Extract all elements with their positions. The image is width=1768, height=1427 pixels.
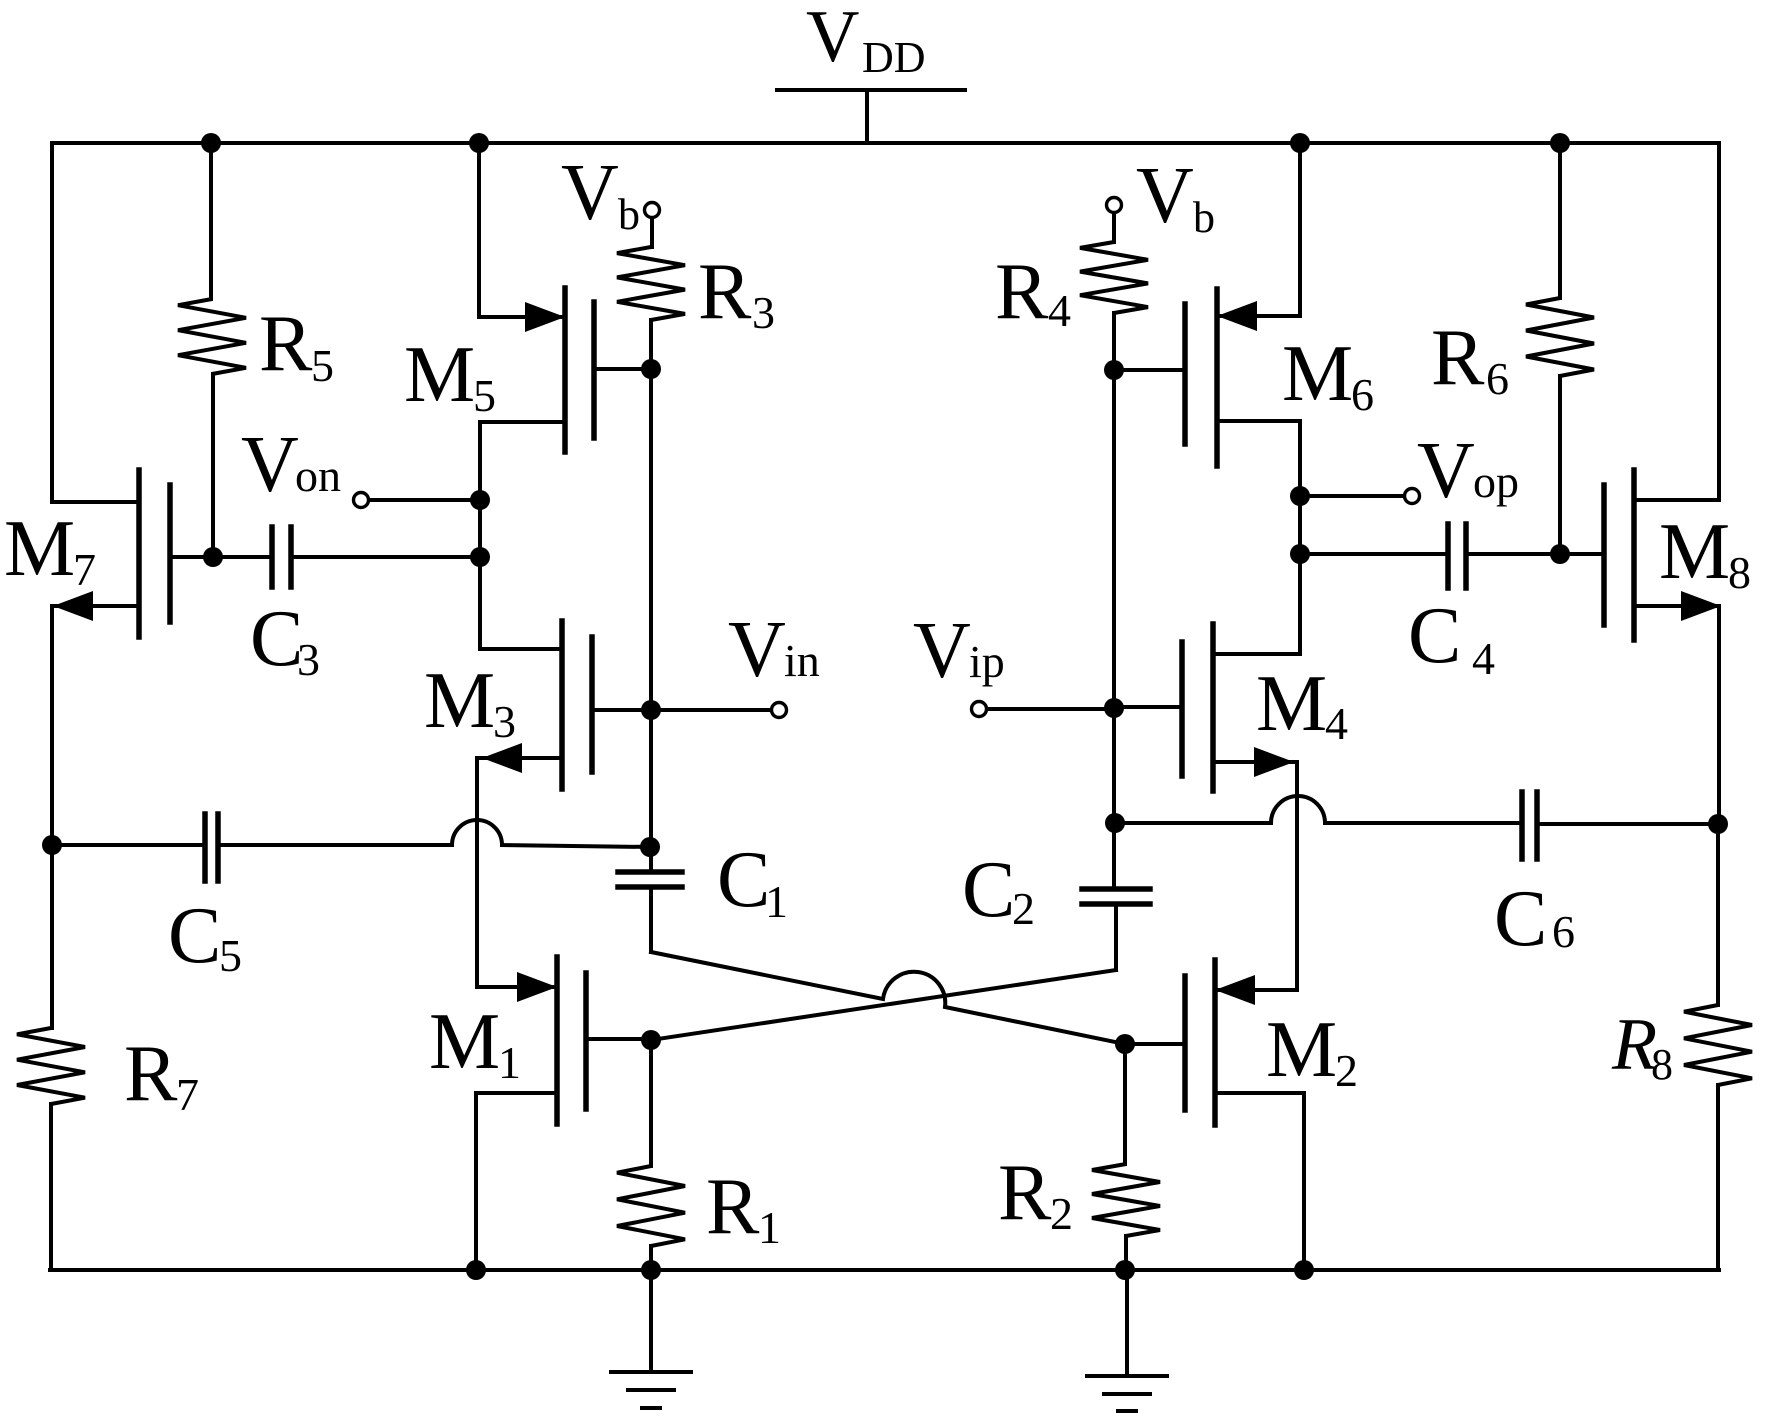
wire: cross-coupling C1 to M2 gate (with hop) — [651, 952, 1125, 1044]
svg-text:M: M — [1266, 1006, 1337, 1094]
node Von — [241, 421, 478, 509]
svg-text:M: M — [1282, 330, 1353, 418]
capacitor C4 — [1300, 524, 1604, 684]
svg-text:V: V — [913, 607, 971, 695]
svg-text:8: 8 — [1651, 1040, 1673, 1089]
wire: R3 column down to C1 — [649, 369, 653, 872]
transistor M4 — [1115, 624, 1348, 990]
svg-text:7: 7 — [176, 1069, 199, 1120]
svg-text:1: 1 — [498, 1037, 521, 1088]
svg-text:5: 5 — [473, 370, 496, 421]
transistor M7 — [4, 470, 215, 845]
transistor M1 — [429, 957, 650, 1270]
power symbol VDD — [777, 0, 965, 143]
svg-text:b: b — [618, 190, 640, 239]
transistor M5 — [404, 288, 651, 649]
svg-text:R: R — [998, 1149, 1052, 1237]
capacitor C6 — [1115, 792, 1718, 963]
svg-text:4: 4 — [1472, 633, 1495, 684]
svg-text:6: 6 — [1486, 353, 1509, 404]
wire: left edge from rail to M7 source — [52, 143, 139, 502]
svg-text:C: C — [717, 836, 770, 924]
svg-text:R: R — [698, 248, 752, 336]
transistor M8 — [1604, 470, 1751, 824]
resistor R7 — [17, 845, 199, 1268]
resistor R8 — [1611, 824, 1752, 1270]
svg-text:on: on — [295, 450, 341, 501]
svg-text:2: 2 — [1050, 1188, 1073, 1239]
svg-text:V: V — [241, 421, 299, 509]
svg-text:R: R — [1431, 314, 1485, 402]
wire: VDD top rail — [52, 141, 1719, 145]
ground (right, under R2) — [1087, 1270, 1167, 1411]
wire: R4 column down to C2 — [1112, 370, 1116, 889]
svg-text:b: b — [1193, 193, 1215, 242]
svg-text:C: C — [250, 595, 303, 683]
wire: left edge bottom corner — [49, 1104, 53, 1270]
wire: rail to M5 source — [477, 143, 481, 317]
transistor M6 — [1114, 289, 1374, 654]
resistor R2 — [998, 1044, 1160, 1270]
transistor M3 — [424, 621, 651, 987]
node Vip — [913, 607, 1114, 717]
wire: right edge from rail to M8 source — [1634, 143, 1719, 500]
node Vb (right) and resistor R4 — [995, 152, 1215, 370]
svg-text:1: 1 — [765, 876, 788, 927]
svg-text:7: 7 — [73, 544, 96, 595]
svg-text:R: R — [124, 1030, 178, 1118]
wire: rail to M6 source — [1298, 143, 1302, 316]
resistor R1 — [617, 1040, 781, 1270]
svg-text:M: M — [1256, 660, 1327, 748]
svg-text:V: V — [561, 149, 619, 237]
svg-text:M: M — [429, 998, 500, 1086]
svg-text:M: M — [1659, 508, 1730, 596]
svg-text:M: M — [4, 505, 75, 593]
svg-text:2: 2 — [1335, 1045, 1358, 1096]
svg-text:8: 8 — [1728, 547, 1751, 598]
capacitor C2 — [962, 846, 1150, 970]
svg-text:3: 3 — [297, 634, 320, 685]
svg-text:1: 1 — [758, 1202, 781, 1253]
svg-text:5: 5 — [219, 930, 242, 981]
svg-text:in: in — [784, 635, 820, 686]
svg-text:C: C — [168, 892, 221, 980]
svg-text:6: 6 — [1552, 906, 1575, 957]
svg-text:DD: DD — [862, 33, 926, 82]
svg-text:4: 4 — [1048, 285, 1071, 336]
svg-text:V: V — [806, 0, 859, 78]
svg-text:R: R — [706, 1163, 760, 1251]
svg-text:C: C — [1408, 592, 1461, 680]
svg-text:3: 3 — [752, 287, 775, 338]
svg-text:2: 2 — [1012, 883, 1035, 934]
svg-text:M: M — [404, 331, 475, 419]
capacitor C5 — [52, 814, 649, 981]
svg-text:C: C — [1494, 875, 1547, 963]
svg-text:4: 4 — [1325, 698, 1348, 749]
ground (left, under R1) — [611, 1270, 691, 1408]
node Vop — [1300, 427, 1519, 515]
svg-text:V: V — [728, 606, 786, 694]
svg-text:M: M — [424, 657, 495, 745]
svg-text:op: op — [1473, 456, 1519, 507]
resistor R6 — [1431, 143, 1594, 554]
svg-text:6: 6 — [1351, 369, 1374, 420]
svg-text:C: C — [962, 846, 1015, 934]
capacitor C3 — [215, 527, 478, 685]
capacitor C1 — [618, 836, 788, 952]
node Vin — [651, 606, 820, 718]
svg-text:V: V — [1136, 152, 1194, 240]
svg-text:3: 3 — [493, 696, 516, 747]
svg-text:R: R — [259, 300, 313, 388]
wire: bottom rail — [50, 1268, 1719, 1272]
node Vb (left) and resistor R3 — [561, 149, 775, 369]
svg-text:R: R — [995, 248, 1049, 336]
resistor R5 — [178, 143, 334, 557]
transistor M2 — [1125, 960, 1358, 1270]
svg-text:5: 5 — [311, 340, 334, 391]
svg-text:ip: ip — [969, 636, 1005, 687]
wire: cross-coupling C2 to M1 gate — [651, 970, 1116, 1040]
svg-text:V: V — [1417, 427, 1475, 515]
